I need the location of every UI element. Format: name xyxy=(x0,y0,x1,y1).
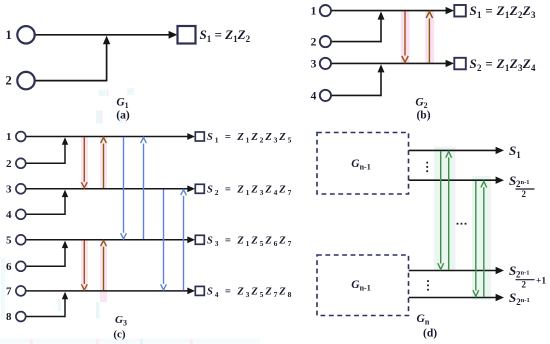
vertical dots lower (d) xyxy=(427,280,429,290)
check node squares S1-S4 (c) xyxy=(195,132,204,141)
wire row line S1 (c) xyxy=(26,136,189,138)
check node square S2 (b) xyxy=(454,58,466,70)
variable node circle 3 (b) xyxy=(320,58,331,69)
wire node8 horizontal + vertical merge up arrow (c) xyxy=(26,316,65,318)
wire vertical merge with up arrow (a) xyxy=(106,43,108,81)
svg-text:1: 1 xyxy=(5,28,11,42)
wire from node 1 to S1 square xyxy=(35,34,170,36)
svg-text:(b): (b) xyxy=(416,110,430,122)
wire output line S2^(n-1)/2 (d) xyxy=(409,179,497,181)
red down arrow line1 to line3 (b) xyxy=(404,12,406,56)
svg-text:2: 2 xyxy=(311,37,317,49)
svg-text:8: 8 xyxy=(6,311,12,323)
svg-text:7: 7 xyxy=(6,286,12,298)
wire node6 horizontal + vertical merge up arrow (c) xyxy=(26,265,65,267)
arrowhead into S1 square (b) xyxy=(446,7,454,14)
red up arrow line3 to line1 (b) xyxy=(428,19,430,63)
variable node circle 2 (b) xyxy=(320,36,331,47)
svg-text:(c): (c) xyxy=(113,329,126,341)
variable node circle 4 (b) xyxy=(320,90,331,101)
svg-text:1: 1 xyxy=(311,6,317,18)
wire vertical merge 3+4 with up arrow (b) xyxy=(380,71,382,96)
svg-text:5: 5 xyxy=(6,235,12,247)
arrowhead into S2 square (b) xyxy=(446,60,454,67)
green down arrow pair B (d) xyxy=(475,181,477,291)
green up arrow pair A (d) xyxy=(448,157,450,269)
arrowhead into S1 square xyxy=(169,31,178,39)
wire output line S1 (d) xyxy=(409,149,497,151)
svg-text:(d): (d) xyxy=(423,328,437,340)
svg-text:+1: +1 xyxy=(536,277,546,287)
svg-text:3: 3 xyxy=(6,184,12,196)
blue down arrow rows2-4 (c) xyxy=(163,190,165,284)
red up arrow rows4-3 (c) xyxy=(103,247,105,291)
svg-text:4: 4 xyxy=(6,209,12,221)
variable node circle 1 (b) xyxy=(320,5,331,16)
blue up arrow rows3-1 (c) xyxy=(143,144,145,240)
wire output line S2^(n-1)/2+1 (d) xyxy=(409,270,497,272)
wire vertical merge 1+2 with up arrow (b) xyxy=(380,19,382,43)
wire output line S2^(n-1) (d) xyxy=(409,297,497,299)
svg-text:4: 4 xyxy=(311,90,317,102)
dashed box Gn-1 lower (d) xyxy=(317,255,409,316)
blue up arrow rows4-2 (c) xyxy=(183,196,185,290)
wire from node 2 horizontal xyxy=(35,80,107,82)
svg-text:2: 2 xyxy=(6,158,12,170)
label S 2^(n-1)/2 (d) xyxy=(509,173,535,199)
variable node circles 1-8 (c) xyxy=(16,132,26,142)
wire line 2 (b) xyxy=(331,41,381,43)
check node square S1 (b) xyxy=(454,5,466,17)
wire line 4 (b) xyxy=(331,94,381,96)
red down arrow rows1-2 (c) xyxy=(83,137,85,182)
svg-text:1: 1 xyxy=(6,131,12,143)
wire row line S4 (c) xyxy=(26,290,189,292)
faint jpeg-artifact smudges xyxy=(0,88,260,344)
highlight band behind red up arrow (b) xyxy=(425,11,434,64)
highlight band behind red down arrow (b) xyxy=(401,11,410,64)
vertical dots upper (d) xyxy=(426,162,428,172)
mint highlight band behind green pair A (d) xyxy=(434,147,456,272)
green up arrow pair B (d) xyxy=(483,187,485,297)
svg-text:2: 2 xyxy=(522,280,527,290)
variable node circle 2 (a) xyxy=(17,72,34,89)
horizontal dots between green pairs (d) xyxy=(457,223,467,225)
highlight band behind red arrows rows3-4 (c) xyxy=(81,240,88,291)
mint highlight band behind green pair B (d) xyxy=(472,176,491,300)
red down arrow rows3-4 (c) xyxy=(83,241,85,284)
wire line 1 (b) xyxy=(331,10,447,12)
svg-text:6: 6 xyxy=(6,261,12,273)
wire row line S2 (c) xyxy=(26,188,189,190)
svg-text:2: 2 xyxy=(522,189,527,199)
variable node circle 1 (a) xyxy=(17,26,34,43)
green down arrow pair A (d) xyxy=(440,151,442,264)
label S 2^(n-1)/2+1 (d) xyxy=(509,263,546,290)
check node square S1 (a) xyxy=(178,26,196,44)
wire line 3 (b) xyxy=(331,62,447,64)
red up arrow rows2-1 (c) xyxy=(103,144,105,189)
wire row line S3 (c) xyxy=(26,239,189,241)
svg-text:(a): (a) xyxy=(116,110,130,122)
svg-text:2: 2 xyxy=(5,74,11,88)
highlight band behind red arrows rows1-2 (c) xyxy=(81,137,88,189)
dashed box Gn-1 upper (d) xyxy=(317,133,409,195)
wire node2 horizontal + vertical merge up arrow (c) xyxy=(26,162,65,164)
svg-text:3: 3 xyxy=(311,58,317,70)
wire node4 horizontal + vertical merge up arrow (c) xyxy=(26,213,65,215)
blue down arrow rows1-3 (c) xyxy=(123,137,125,233)
